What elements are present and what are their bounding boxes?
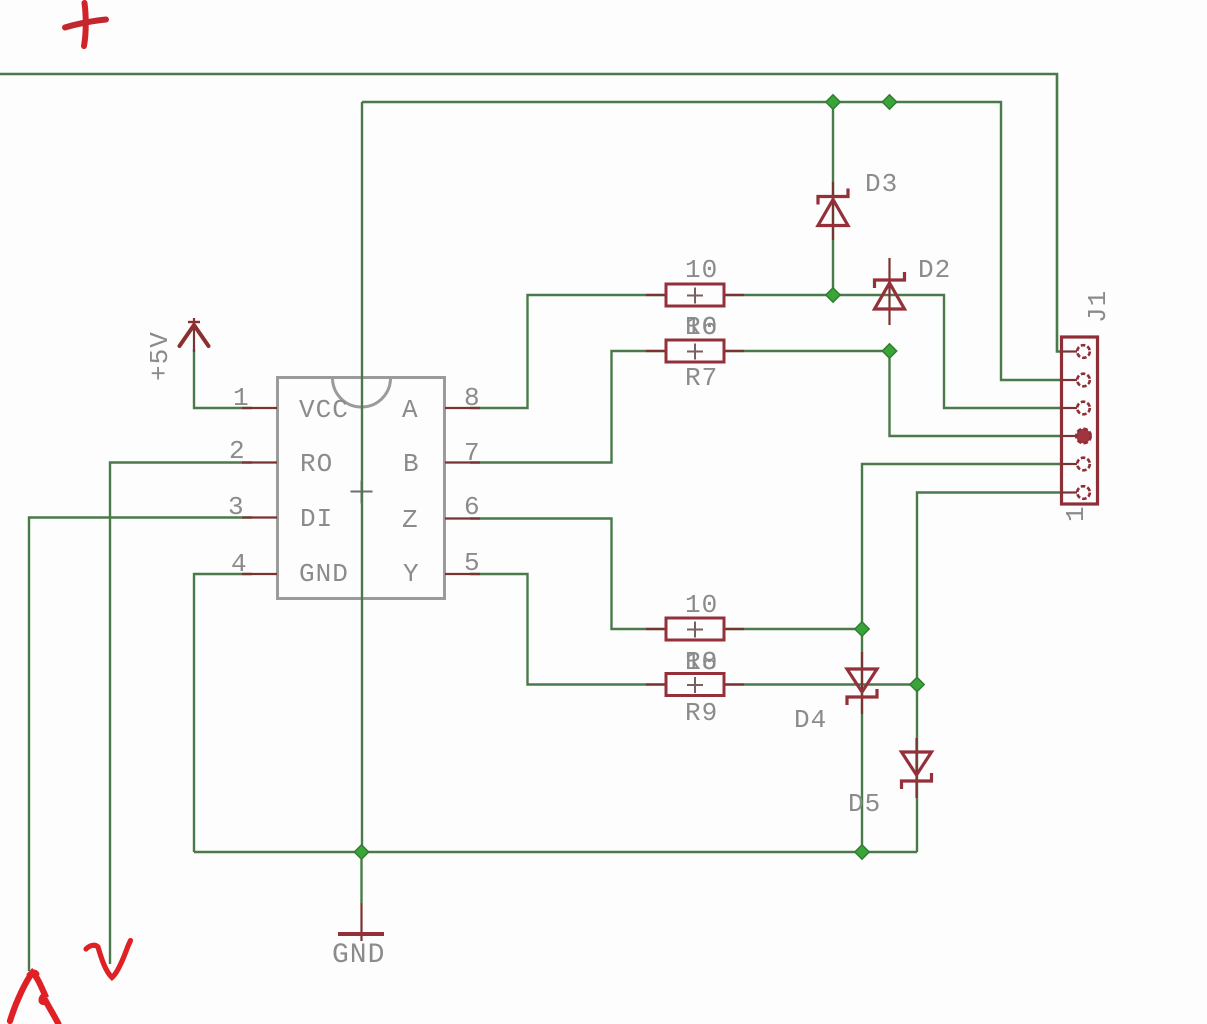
svg-text:5: 5 <box>464 548 480 578</box>
svg-text:R7: R7 <box>685 363 718 393</box>
wire RO pin2 to bottom left probe <box>110 463 252 965</box>
IC pin 5 stub <box>445 573 480 575</box>
resistor R8 <box>646 618 744 640</box>
IC pin 1 stub <box>242 407 277 409</box>
wire D4 vertical branch to J1 pin5 <box>862 464 1064 852</box>
wire GND pin4 down <box>194 574 252 852</box>
svg-text:10: 10 <box>685 255 718 285</box>
IC pin 3 stub <box>242 516 277 518</box>
junction dot D2-R7 <box>882 344 896 358</box>
IC U1 body <box>278 378 445 599</box>
wire net B: pin7 through R7 to D2 junction <box>470 351 890 463</box>
connector J1 <box>1062 337 1098 504</box>
wire IC center vertical <box>361 102 363 852</box>
svg-text:Z: Z <box>402 505 418 535</box>
svg-text:10: 10 <box>685 312 718 342</box>
svg-text:GND: GND <box>332 940 385 971</box>
wire second rail from IC top to J1 pin2 <box>362 102 1064 380</box>
svg-text:RO: RO <box>300 449 333 479</box>
resistor R9 <box>646 674 744 696</box>
IC pin 4 stub <box>242 573 277 575</box>
svg-text:6: 6 <box>464 492 480 522</box>
svg-text:VCC: VCC <box>299 395 349 425</box>
junction dot R8-D4 <box>855 622 869 636</box>
wire net Y: pin5 through R9 <box>470 574 917 685</box>
red annotation caret A (bottom left) <box>10 972 59 1024</box>
svg-text:J1: J1 <box>1083 290 1113 323</box>
wire top +5V rail to J1 pin1 <box>0 74 1064 352</box>
junction dot D3-R6 <box>826 288 840 302</box>
wire D3 vertical <box>832 102 834 295</box>
svg-text:10: 10 <box>685 590 718 620</box>
wire net Z: pin6 through R8 <box>470 519 862 630</box>
IC pin 6 stub <box>445 517 480 519</box>
wire DI pin3 to bottom left probe <box>29 518 252 972</box>
svg-text:7: 7 <box>464 438 480 468</box>
svg-text:10: 10 <box>685 647 718 677</box>
IC pin 8 stub <box>445 407 480 409</box>
wire net A: pin8 through R6 to J1 pin3 <box>470 295 1064 408</box>
svg-text:1: 1 <box>1061 506 1091 522</box>
IC pin 7 stub <box>445 461 480 463</box>
wire bottom ground rail <box>194 851 917 853</box>
junction dot rail2-D2 <box>882 95 896 109</box>
svg-text:GND: GND <box>299 559 349 589</box>
wire D2 junction to J1 pin4 <box>890 351 1065 436</box>
diode D4 (zener, pointing down) <box>847 652 877 714</box>
svg-text:8: 8 <box>464 383 480 413</box>
junction dot D4-ground rail <box>855 845 869 859</box>
svg-text:3: 3 <box>228 492 244 522</box>
ground symbol GND <box>338 858 384 941</box>
junction dot R9-D5 <box>910 677 924 691</box>
svg-text:Y: Y <box>403 559 419 589</box>
red annotation V (bottom left) <box>86 941 131 978</box>
+5V supply symbol <box>180 318 209 352</box>
svg-text:1: 1 <box>233 383 249 413</box>
svg-text:D3: D3 <box>865 169 898 199</box>
diode D2 (zener, pointing up) <box>875 258 905 325</box>
IC pin 2 stub <box>242 461 277 463</box>
svg-text:DI: DI <box>300 504 333 534</box>
svg-text:2: 2 <box>229 436 245 466</box>
wire VCC pin1 from +5V <box>194 349 252 408</box>
svg-text:A: A <box>402 395 418 425</box>
svg-text:4: 4 <box>231 549 247 579</box>
svg-text:B: B <box>403 449 419 479</box>
diode D5 (zener, pointing down) <box>902 738 932 798</box>
svg-text:R9: R9 <box>685 698 718 728</box>
svg-text:D4: D4 <box>794 705 827 735</box>
svg-text:D5: D5 <box>848 789 881 819</box>
diode D3 (zener, pointing up) <box>818 182 848 240</box>
resistor R6 <box>646 284 744 306</box>
svg-text:+5V: +5V <box>145 331 175 381</box>
wire D5 vertical branch to J1 pin6 <box>917 493 1064 853</box>
resistor R7 <box>646 340 744 362</box>
red annotation plus sign top left <box>65 3 106 46</box>
svg-text:D2: D2 <box>918 255 951 285</box>
junction dot GND node <box>354 845 368 859</box>
junction dot rail2-D3 <box>826 95 840 109</box>
